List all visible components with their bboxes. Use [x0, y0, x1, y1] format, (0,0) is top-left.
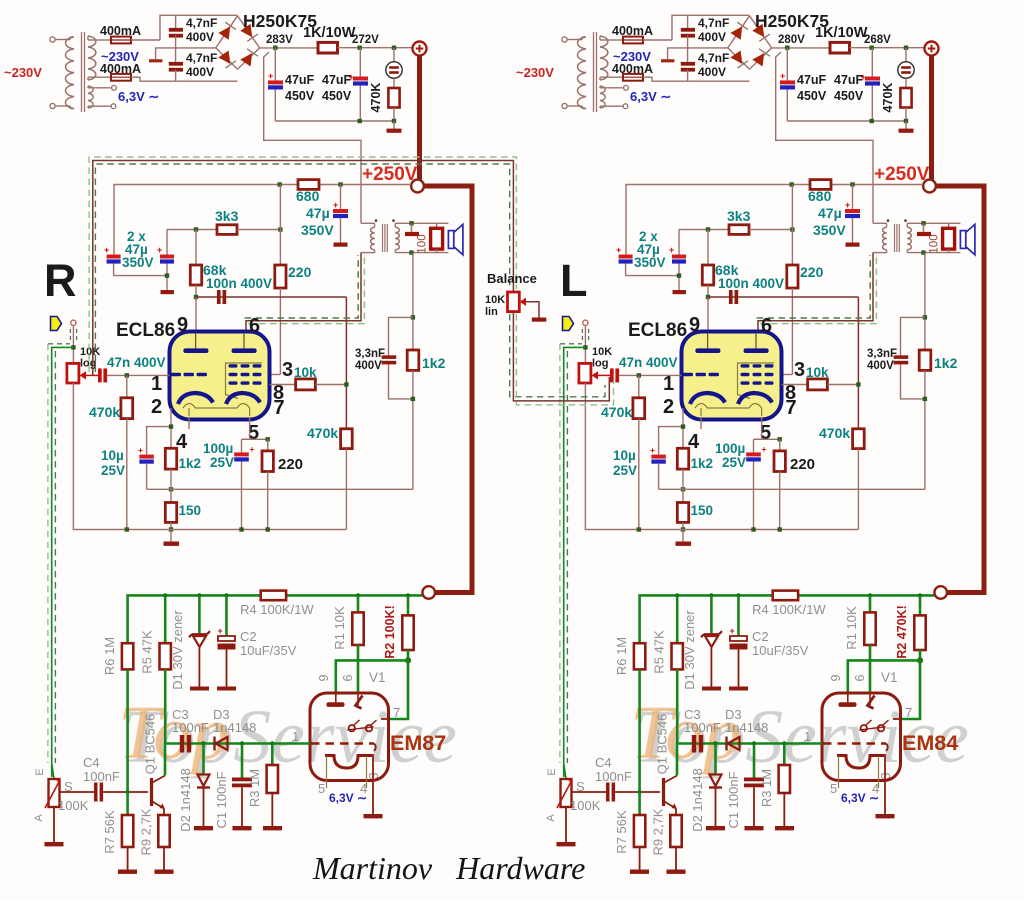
- dashed feedback dark (right): [757, 255, 871, 318]
- svg-text:1: 1: [292, 729, 299, 744]
- watermark TopService left: [118, 691, 457, 779]
- resistor R9 2,7K (right): [667, 815, 686, 874]
- capacitor 3,3nF (right): [894, 317, 925, 399]
- svg-text:280V: 280V: [778, 34, 805, 46]
- svg-text:5: 5: [830, 781, 837, 796]
- wire triode cathode (left): [147, 408, 171, 455]
- label 100u 25V (left): [203, 441, 234, 470]
- speaker (left): [448, 224, 463, 254]
- svg-text:+: +: [616, 245, 621, 255]
- svg-text:470k: 470k: [601, 404, 632, 420]
- dashed interconnect dark: [95, 164, 509, 372]
- svg-text:350V: 350V: [813, 222, 846, 238]
- label 47u 350V (right): [813, 205, 846, 238]
- svg-text:100nF: 100nF: [83, 769, 120, 784]
- capacitor C1 100nF (left): [232, 744, 252, 831]
- svg-text:400V: 400V: [867, 360, 894, 372]
- wire AC mid / chassis stub (left): [149, 48, 216, 63]
- node D3 C1 (left): [240, 741, 244, 745]
- svg-text:220: 220: [288, 264, 312, 280]
- label 10u 25V (right): [613, 448, 637, 478]
- wire pin9 indicator (left): [336, 660, 408, 694]
- node screen dropper (right): [790, 227, 794, 231]
- resistor 1K/10W (right): [830, 42, 925, 53]
- node ground bus 100u (left): [239, 527, 243, 531]
- svg-text:1K/10W: 1K/10W: [303, 25, 356, 41]
- svg-text:100nF: 100nF: [684, 720, 721, 735]
- mains transformer TR (left): [50, 32, 117, 112]
- wire indicator supply rail (left): [128, 595, 423, 643]
- capacitor 4,7nF upper (right): [681, 15, 695, 62]
- svg-text:R6 1M: R6 1M: [102, 637, 117, 675]
- resistor 68k (right): [702, 230, 713, 298]
- label C3 100nF (right): [684, 707, 721, 735]
- diode D3 1n4148 (right): [727, 737, 740, 751]
- resistor 68k (left): [190, 230, 201, 298]
- transistor Q1 BC546 (left): [152, 744, 166, 816]
- label 47uF 450V #1 (left): [285, 73, 315, 103]
- svg-text:1n4148: 1n4148: [725, 720, 768, 735]
- svg-text:25V: 25V: [210, 455, 234, 470]
- svg-text:+: +: [138, 445, 143, 455]
- capacitor 47n input (left): [98, 368, 170, 382]
- svg-text:1k2: 1k2: [934, 355, 958, 371]
- svg-text:400V: 400V: [186, 30, 214, 44]
- capacitor 2x47u #2 (right): [669, 230, 686, 295]
- capacitor 100u 25V (right): [746, 439, 766, 529]
- node ground bus 220 (right): [778, 527, 782, 531]
- output transformer (left): [361, 219, 448, 252]
- terminal +250V indicator (right): [934, 586, 947, 599]
- svg-text:2: 2: [151, 396, 162, 418]
- svg-text:R2 100K!: R2 100K!: [383, 605, 397, 659]
- svg-text:R9 2,7K: R9 2,7K: [651, 808, 666, 855]
- chassis stub speaker (right): [917, 223, 931, 236]
- wire feedback rail (left): [147, 488, 413, 490]
- node zobel top (right): [923, 315, 927, 319]
- node grid 1 (right): [637, 373, 641, 377]
- svg-text:47n 400V: 47n 400V: [619, 355, 678, 370]
- node indicator grid2 (right): [917, 657, 923, 663]
- label D3 1n4148 (left): [213, 707, 256, 735]
- svg-text:350V: 350V: [301, 222, 334, 238]
- node rail R2 (right): [918, 593, 922, 597]
- svg-text:4,7nF: 4,7nF: [698, 51, 729, 65]
- svg-text:R7 56K: R7 56K: [102, 810, 117, 854]
- svg-text:6,3V ∼: 6,3V ∼: [630, 89, 671, 104]
- capacitor C2 10uF/35V (left): [217, 595, 236, 690]
- svg-text:E: E: [34, 768, 46, 775]
- svg-text:10K: 10K: [80, 346, 100, 358]
- svg-text:47µ: 47µ: [306, 205, 330, 221]
- svg-text:220: 220: [800, 264, 824, 280]
- label C2 10uF/35V (right): [752, 629, 809, 658]
- node 0V rail a (left): [358, 119, 362, 123]
- node rail C2 (right): [736, 593, 740, 597]
- wire indicator supply rail (right): [640, 595, 935, 643]
- speaker (right): [960, 224, 975, 254]
- svg-text:470K: 470K: [369, 83, 383, 113]
- node zobel bottom (left): [411, 397, 415, 401]
- node 283V (left): [273, 46, 277, 50]
- resistor 470K bleeder (right): [900, 78, 911, 121]
- svg-text:3k3: 3k3: [727, 208, 751, 224]
- svg-text:V1: V1: [881, 670, 898, 685]
- svg-text:3,3nF: 3,3nF: [355, 348, 385, 360]
- svg-text:470k: 470k: [307, 425, 338, 441]
- capacitor 4,7nF lower (left): [169, 62, 183, 81]
- svg-text:1k2: 1k2: [179, 456, 202, 471]
- svg-text:47n 400V: 47n 400V: [107, 355, 166, 370]
- svg-text:150: 150: [179, 503, 202, 518]
- capacitor C3 100nF (left): [180, 735, 184, 753]
- zener D1 30V (right): [701, 595, 722, 690]
- node amp rail a (left): [278, 182, 282, 186]
- svg-text:EM84: EM84: [902, 731, 958, 755]
- wire balance return: [513, 312, 609, 401]
- terminal +250V indicator (left): [422, 586, 435, 599]
- node 68k top (left): [194, 227, 198, 231]
- svg-text:1k2: 1k2: [691, 456, 714, 471]
- label 47u 350V (left): [301, 205, 334, 238]
- wire triode anode to coupling (left): [196, 296, 346, 298]
- node 0V rail a (right): [870, 119, 874, 123]
- node screen dropper (left): [278, 227, 282, 231]
- mains transformer TR (right): [562, 32, 628, 112]
- svg-text:350V: 350V: [634, 255, 666, 270]
- node rail D1 (left): [197, 593, 201, 597]
- svg-text:R2 470K!: R2 470K!: [895, 605, 909, 659]
- wire bridge + output to 283V node (right): [772, 47, 830, 49]
- svg-text:220: 220: [790, 456, 815, 473]
- svg-text:4,7nF: 4,7nF: [698, 16, 729, 30]
- ground stub 150 (left): [164, 530, 180, 546]
- resistor 150 (left): [165, 469, 176, 529]
- node ground bus 470k (right): [637, 527, 641, 531]
- resistor R2 (right): [914, 595, 925, 660]
- svg-text:1K/10W: 1K/10W: [815, 25, 868, 41]
- wire pin7 indicator (left): [381, 660, 408, 719]
- svg-text:100nF: 100nF: [172, 720, 209, 735]
- svg-text:D2 1n4148: D2 1n4148: [178, 768, 193, 832]
- resistor 470K bleeder (left): [388, 78, 399, 121]
- svg-text:Q1 BC546: Q1 BC546: [143, 714, 158, 775]
- svg-text:L: L: [560, 255, 588, 306]
- wire AC top to bridge (left): [160, 15, 237, 40]
- potentiometer 10K log (right): [579, 363, 610, 383]
- svg-text:+: +: [333, 200, 338, 210]
- dashed balance return dark: [510, 314, 605, 397]
- wire feedback vertical (left): [412, 253, 414, 350]
- wire pentode anode pin6 (right): [758, 253, 873, 333]
- svg-text:C2: C2: [752, 629, 769, 644]
- svg-text:+250V: +250V: [874, 164, 930, 185]
- capacitor 47u 350V (right): [845, 185, 860, 247]
- svg-text:Q1 BC546: Q1 BC546: [655, 714, 670, 775]
- svg-text:47µ: 47µ: [818, 205, 842, 221]
- svg-text:+: +: [845, 200, 850, 210]
- node 68k top (right): [706, 227, 710, 231]
- svg-text:R1 10K: R1 10K: [844, 606, 859, 650]
- svg-text:6,3V ∼: 6,3V ∼: [329, 791, 367, 805]
- node speaker rail top (right): [921, 221, 925, 225]
- resistor 1k2 cathode (left): [165, 448, 176, 469]
- resistor 470k grid (left): [121, 375, 133, 529]
- svg-text:R9 2,7K: R9 2,7K: [139, 808, 154, 855]
- dashed balance return light: [516, 314, 613, 405]
- label D3 1n4148 (right): [725, 707, 768, 735]
- label 10K lin balance: [485, 294, 505, 318]
- svg-text:350V: 350V: [122, 255, 154, 270]
- svg-text:R: R: [44, 255, 77, 306]
- svg-text:283V: 283V: [266, 34, 293, 46]
- input jack (left): [70, 320, 76, 364]
- node circle +250V (right): [923, 180, 936, 193]
- wire coupling down (right): [857, 297, 859, 429]
- svg-text:150: 150: [691, 503, 714, 518]
- capacitor C3 100nF (right): [692, 735, 696, 753]
- capacitor 47u 350V (left): [333, 185, 348, 247]
- node speaker rail bottom (right): [921, 250, 925, 254]
- label 10K log (right): [592, 346, 612, 370]
- resistor 1k2 zobel (right): [919, 350, 931, 489]
- svg-text:ECL86: ECL86: [628, 320, 687, 341]
- svg-text:6: 6: [341, 674, 355, 681]
- potentiometer 10K log (left): [67, 363, 98, 383]
- node 0V rail b (right): [904, 119, 908, 123]
- svg-text:100K: 100K: [570, 798, 601, 813]
- label 47uF 450V #2 (right): [834, 73, 864, 103]
- ground stub PSU (left): [387, 121, 402, 133]
- resistor R6 1M (right): [634, 643, 645, 792]
- chassis stub speaker (left): [405, 223, 419, 236]
- wire thick B+ down (left): [417, 56, 422, 181]
- svg-text:9: 9: [317, 674, 331, 681]
- capacitor 10u 25V (right): [650, 445, 666, 489]
- svg-text:6,3V ∼: 6,3V ∼: [118, 89, 159, 104]
- svg-text:C1 100nF: C1 100nF: [214, 771, 229, 828]
- svg-text:+: +: [218, 626, 223, 636]
- node amp rail b (right): [850, 182, 854, 186]
- svg-text:400mA: 400mA: [100, 62, 141, 76]
- resistor 470k grid (right): [633, 375, 645, 529]
- resistor 1k2 cathode (right): [677, 448, 688, 469]
- dashed feedback light (left): [248, 255, 364, 324]
- svg-text:6,3V ∼: 6,3V ∼: [841, 791, 879, 805]
- svg-text:C4: C4: [83, 755, 100, 770]
- wire AC mid / chassis stub (right): [661, 48, 728, 63]
- node rail R1 (left): [356, 593, 360, 597]
- svg-text:47uF: 47uF: [322, 73, 352, 87]
- svg-text:R5 47K: R5 47K: [140, 630, 155, 674]
- node input shield (left): [71, 345, 75, 349]
- wire pentode anode pin6 (left): [246, 253, 361, 333]
- svg-text:470k: 470k: [89, 404, 120, 420]
- label 4,7nF 400V lower (left): [186, 51, 217, 79]
- capacitor 47uF 450V #2 (left): [349, 48, 369, 121]
- wire thick B+ down (right): [929, 56, 934, 181]
- svg-text:log: log: [592, 358, 609, 370]
- resistor 470k pentode grid (left): [341, 429, 353, 530]
- node pentode cathode (left): [266, 437, 270, 441]
- fuse F2 400mA (right): [616, 74, 749, 81]
- svg-text:220: 220: [278, 456, 303, 473]
- svg-text:9: 9: [829, 674, 843, 681]
- resistor R6 1M (left): [122, 643, 133, 792]
- watermark TopService right: [630, 691, 969, 779]
- svg-text:S: S: [64, 779, 73, 794]
- neon lamp (left): [386, 48, 402, 78]
- capacitor 100u 25V (left): [234, 439, 254, 529]
- label 100u 25V (right): [715, 441, 746, 470]
- wire bridge + output to 283V node (left): [260, 47, 318, 49]
- node 272V rail b (left): [392, 46, 396, 50]
- svg-text:450V: 450V: [285, 89, 315, 103]
- resistor 220 cathode (right): [774, 439, 785, 529]
- svg-text:450V: 450V: [322, 89, 352, 103]
- svg-text:A: A: [545, 814, 557, 822]
- potentiometer S 100K (left): [45, 763, 64, 846]
- svg-text:+: +: [250, 444, 255, 454]
- svg-text:1: 1: [151, 373, 162, 395]
- label 4,7nF 400V upper (right): [698, 16, 729, 44]
- svg-text:Martinov Hardware: Martinov Hardware: [312, 850, 585, 886]
- label 3,3nF 400V (left): [355, 348, 385, 372]
- node ground bus 150 (left): [169, 527, 173, 531]
- svg-text:400V: 400V: [698, 65, 726, 79]
- node ground bus 150 (right): [681, 527, 685, 531]
- node triode cathode (left): [169, 424, 173, 428]
- label C3 100nF (left): [172, 707, 209, 735]
- zener D1 30V (left): [189, 595, 210, 690]
- svg-text:2: 2: [663, 396, 674, 418]
- node ground bus 470k (left): [125, 527, 129, 531]
- terminal + output (left): [413, 42, 427, 56]
- node grid 1 (left): [125, 373, 129, 377]
- capacitor 2x47u #2 (left): [157, 230, 174, 295]
- node amp rail a (right): [790, 182, 794, 186]
- svg-text:3: 3: [794, 359, 805, 381]
- bridge rectifier H250K75 (left): [216, 16, 260, 69]
- svg-text:D2 1n4148: D2 1n4148: [690, 768, 705, 832]
- svg-text:25V: 25V: [722, 455, 746, 470]
- node 272V rail a (right): [870, 46, 874, 50]
- svg-text:+: +: [157, 245, 162, 255]
- svg-text:25V: 25V: [613, 463, 637, 478]
- svg-text:100nF: 100nF: [595, 769, 632, 784]
- svg-text:400mA: 400mA: [612, 62, 653, 76]
- capacitor 2x47u #1 (right): [616, 245, 679, 276]
- resistor R4 100K/1W (right): [773, 591, 798, 601]
- svg-text:400V: 400V: [186, 65, 214, 79]
- svg-text:+: +: [730, 626, 735, 636]
- svg-text:+: +: [650, 445, 655, 455]
- svg-text:9: 9: [177, 314, 188, 336]
- diode D2 1n4148 (left): [194, 744, 213, 831]
- wire triode anode to coupling (right): [708, 296, 858, 298]
- resistor 470k pentode grid (right): [853, 429, 865, 530]
- node C3 D2 (right): [713, 741, 717, 745]
- capacitor C1 100nF (right): [744, 744, 764, 831]
- resistor 3k3 (right): [729, 225, 792, 235]
- svg-text:6: 6: [761, 315, 772, 337]
- node 0V rail b (left): [392, 119, 396, 123]
- svg-text:400V: 400V: [698, 30, 726, 44]
- svg-text:47uF: 47uF: [797, 73, 827, 87]
- node rail D1 (right): [709, 593, 713, 597]
- resistor R3 1M (left): [263, 744, 282, 831]
- node C3 D2 (left): [201, 741, 205, 745]
- label 47uF 450V #1 (right): [797, 73, 827, 103]
- svg-text:47uF: 47uF: [285, 73, 315, 87]
- tube EM84 (right): [822, 693, 901, 818]
- wire indicator signal line (left): [165, 742, 310, 745]
- svg-text:7: 7: [274, 397, 285, 419]
- svg-text:100µ: 100µ: [715, 441, 745, 456]
- ground stub PSU (right): [899, 121, 914, 133]
- svg-text:~230V: ~230V: [516, 65, 554, 80]
- tube ECL86 (right): [682, 332, 782, 420]
- label 10K log (left): [80, 346, 100, 370]
- wire pin5 to cathode (right): [754, 418, 762, 439]
- capacitor 10u 25V (left): [138, 445, 154, 489]
- svg-text:C2: C2: [240, 629, 257, 644]
- svg-text:1: 1: [663, 373, 674, 395]
- resistor 100 (right): [943, 223, 955, 252]
- svg-text:3: 3: [282, 359, 293, 381]
- capacitor 47uF 450V #1 (left): [268, 48, 283, 121]
- svg-text:9: 9: [689, 314, 700, 336]
- svg-text:4,7nF: 4,7nF: [186, 16, 217, 30]
- node D3 C1 (right): [752, 741, 756, 745]
- capacitor 47uF 450V #1 (right): [780, 48, 795, 121]
- svg-text:400mA: 400mA: [612, 24, 653, 38]
- svg-text:+: +: [268, 71, 273, 81]
- svg-text:+: +: [780, 71, 785, 81]
- node 2x47u junction (right): [677, 273, 681, 277]
- svg-text:10uF/35V: 10uF/35V: [240, 643, 297, 658]
- resistor 100 (left): [431, 223, 443, 252]
- wire +250V amp rail (right): [626, 185, 923, 255]
- svg-text:R3 1M: R3 1M: [247, 769, 262, 807]
- label C4 100nF (right): [595, 755, 632, 784]
- label 10u 25V (left): [101, 448, 125, 478]
- wire thick +250V feed to indicator (left): [424, 186, 472, 593]
- svg-text:7: 7: [905, 705, 912, 720]
- wire pin7 indicator (right): [893, 660, 920, 719]
- capacitor 47n input (right): [610, 368, 682, 382]
- node rail R5 (left): [163, 593, 167, 597]
- svg-text:3k3: 3k3: [215, 208, 239, 224]
- svg-text:R3 1M: R3 1M: [759, 769, 774, 807]
- node ground bus 100u (right): [751, 527, 755, 531]
- capacitor 4,7nF lower (right): [681, 62, 695, 81]
- capacitor 3,3nF (left): [382, 317, 413, 399]
- wire input shield run (left): [48, 344, 74, 777]
- diode D3 1n4148 (left): [215, 737, 228, 751]
- wire pin4 stub (right): [700, 418, 702, 429]
- node ground bus 220 (left): [266, 527, 270, 531]
- diode D2 1n4148 (right): [706, 744, 725, 831]
- resistor R5 47K (right): [672, 595, 683, 743]
- svg-text:100: 100: [929, 234, 941, 253]
- resistor R2 (left): [402, 595, 413, 660]
- wire B+ to output transformer (right): [776, 52, 873, 223]
- resistor 1K/10W (left): [318, 42, 413, 53]
- label 4,7nF 400V lower (right): [698, 51, 729, 79]
- svg-text:R6 1M: R6 1M: [614, 637, 629, 675]
- capacitor 100n coupling (left): [217, 290, 221, 304]
